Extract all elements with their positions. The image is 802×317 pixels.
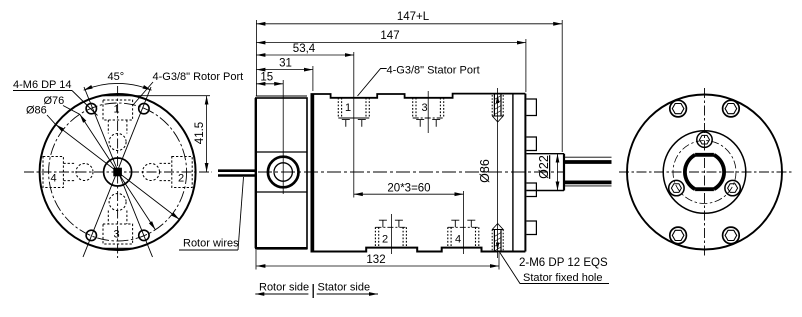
stator port 2 axis bbox=[391, 214, 393, 254]
leader diameter 76 bbox=[63, 106, 155, 230]
center filled square bbox=[113, 168, 122, 177]
separator bar bbox=[312, 284, 314, 298]
port 4 number bbox=[51, 173, 57, 185]
port 1 hole dashed circle bbox=[109, 134, 126, 151]
right view horizontal centerline bbox=[619, 171, 792, 173]
svg-text:3: 3 bbox=[114, 229, 120, 241]
small screw bottom-right bbox=[725, 180, 740, 195]
label 4-M6 DP 14 bbox=[13, 79, 72, 91]
left view top flat chord bbox=[104, 95, 132, 97]
svg-text:Rotor side: Rotor side bbox=[259, 282, 309, 294]
leader stator port bbox=[358, 69, 387, 97]
port 3 number bbox=[114, 229, 120, 241]
port 1 passage dashed lines bbox=[108, 120, 127, 134]
dimension 15 bbox=[256, 72, 283, 84]
M6 screw bottom bbox=[492, 224, 503, 252]
diagonal line B through bolts bbox=[83, 87, 151, 257]
svg-text:15: 15 bbox=[260, 72, 273, 84]
rotor housing band lines bbox=[256, 152, 307, 192]
stator port 4 number bbox=[455, 234, 461, 246]
rotor port boss inner circle bbox=[274, 163, 292, 181]
svg-text:4: 4 bbox=[455, 234, 461, 246]
stator port 1 number bbox=[345, 102, 351, 114]
extension line 147 right bbox=[525, 39, 527, 92]
terminal tab 3 bbox=[526, 183, 536, 197]
svg-text:Ø86: Ø86 bbox=[478, 159, 492, 183]
svg-text:4: 4 bbox=[51, 173, 57, 185]
label 4-G3/8 stator port bbox=[387, 65, 480, 77]
terminal tab 4 bbox=[526, 221, 536, 235]
rotor wires bbox=[218, 171, 256, 176]
bolt hole top-left bbox=[86, 103, 96, 113]
port 2 passage dashed lines bbox=[160, 163, 172, 180]
label stator side bbox=[317, 282, 378, 295]
dimension 132 bbox=[256, 250, 499, 270]
left view outer circle Ø86 bbox=[40, 94, 196, 250]
label rotor side bbox=[255, 282, 309, 295]
stator port 2 threads bbox=[375, 220, 406, 247]
label 4-G3/8 rotor port bbox=[153, 71, 244, 83]
stator port 1 axis bbox=[353, 52, 355, 198]
end cap seam line bbox=[512, 94, 514, 252]
bolt hole top-right bbox=[139, 103, 149, 113]
stator top edge profile bbox=[311, 94, 526, 98]
label stator fixed hole bbox=[523, 272, 603, 284]
svg-text:Ø86: Ø86 bbox=[26, 105, 47, 117]
dimension 41.5 extension line bbox=[132, 95, 210, 97]
M6 screw top bbox=[492, 95, 503, 123]
svg-text:Rotor wires: Rotor wires bbox=[183, 238, 239, 250]
stator port 3 axis bbox=[427, 91, 429, 133]
stator port 3 number bbox=[422, 102, 428, 114]
dimension 53,4 bbox=[256, 43, 353, 55]
svg-text:147: 147 bbox=[380, 30, 399, 42]
svg-text:Ø22: Ø22 bbox=[537, 155, 551, 179]
port 1 number bbox=[114, 104, 120, 116]
right view screw bolt circle bbox=[673, 141, 736, 204]
stator wall (rotor-stator interface) bbox=[311, 94, 315, 252]
svg-text:45°: 45° bbox=[108, 71, 125, 83]
right view outer circle bbox=[627, 95, 782, 250]
diameter 22 dimension bbox=[537, 154, 558, 191]
svg-text:2: 2 bbox=[178, 173, 184, 185]
45 degree label bbox=[108, 71, 125, 83]
port 3 dashed box bbox=[103, 224, 133, 244]
rotor wires leader bbox=[238, 177, 244, 250]
port 4 hole dashed circle bbox=[76, 164, 93, 181]
dimension 41.5 bbox=[194, 96, 207, 172]
bolt hole bottom-left bbox=[86, 230, 96, 240]
port 3 passage dashed lines bbox=[108, 211, 127, 225]
svg-text:20*3=60: 20*3=60 bbox=[387, 183, 430, 195]
port 4 passage dashed lines bbox=[63, 163, 75, 180]
leader 4-M6 to bolt bbox=[72, 91, 98, 116]
svg-text:4-M6 DP 14: 4-M6 DP 14 bbox=[13, 79, 72, 91]
terminal tab 1 bbox=[526, 99, 536, 116]
rotor wires label bbox=[179, 238, 239, 251]
stator port 2 number bbox=[382, 234, 388, 246]
left view vertical centerline bbox=[117, 86, 119, 258]
hex bolt bottom-left bbox=[670, 227, 687, 244]
center hole with flats bbox=[685, 155, 724, 189]
stator wires bbox=[564, 157, 612, 186]
svg-text:2-M6 DP 12 EQS: 2-M6 DP 12 EQS bbox=[519, 257, 608, 269]
leader stator fixed hole bbox=[499, 251, 610, 284]
port 2 hole dashed circle bbox=[143, 164, 160, 181]
45 degree arc bbox=[84, 83, 152, 90]
port 4 dashed box bbox=[43, 157, 63, 188]
extension line left (rotor face) bbox=[255, 20, 257, 96]
small screw top bbox=[697, 132, 712, 147]
rotor housing top seam bbox=[256, 95, 307, 97]
hex bolt top-left bbox=[670, 100, 687, 117]
leader rotor port bbox=[133, 82, 153, 105]
bolt hole bottom-right bbox=[139, 230, 149, 240]
svg-text:132: 132 bbox=[366, 254, 385, 266]
dimension 147+L bbox=[256, 11, 562, 24]
stator shaft outline bbox=[526, 154, 564, 191]
dimension 147 bbox=[256, 30, 526, 43]
stator port 3 threads bbox=[413, 98, 444, 127]
diameter 86 text bbox=[478, 159, 492, 183]
flange right edge bbox=[524, 94, 526, 252]
left view bolt circle Ø76 bbox=[49, 103, 187, 241]
extension line 147+L right bbox=[561, 20, 563, 152]
center shaft circle bbox=[104, 158, 132, 186]
right view vertical centerline bbox=[704, 88, 706, 257]
port 2 number bbox=[178, 173, 184, 185]
port 3 hole dashed circle bbox=[109, 194, 126, 211]
label diameter 76 bbox=[44, 95, 65, 107]
rotor port axis line bbox=[282, 80, 284, 194]
port 2 dashed box bbox=[172, 157, 192, 188]
svg-text:2: 2 bbox=[382, 234, 388, 246]
label diameter 86 bbox=[26, 105, 47, 117]
left view bottom flat chord bbox=[104, 247, 132, 249]
svg-text:4-G3/8" Stator Port: 4-G3/8" Stator Port bbox=[387, 65, 480, 77]
diameter 86 dimension line / screw centerline bbox=[496, 88, 499, 258]
stator port 1 threads bbox=[338, 98, 369, 127]
dimension 31 bbox=[256, 58, 313, 92]
dimension 20*3=60 bbox=[354, 183, 464, 195]
hex bolt bottom-right bbox=[723, 227, 740, 244]
stator bottom edge profile bbox=[311, 248, 526, 252]
rotor housing outline bbox=[255, 98, 307, 248]
leader diameter 86 bbox=[47, 115, 180, 220]
rotor port boss outer circle bbox=[268, 157, 299, 188]
right view flange circle bbox=[663, 131, 746, 214]
svg-text:53,4: 53,4 bbox=[293, 43, 316, 55]
svg-text:147+L: 147+L bbox=[397, 11, 430, 23]
svg-text:Stator side: Stator side bbox=[318, 282, 371, 294]
svg-text:3: 3 bbox=[422, 102, 428, 114]
diagonal line A through bolts bbox=[84, 87, 153, 257]
stator port 4 threads bbox=[448, 220, 479, 247]
stator port 4 axis bbox=[463, 191, 465, 254]
svg-text:4-G3/8" Rotor Port: 4-G3/8" Rotor Port bbox=[153, 71, 244, 83]
left view horizontal centerline bbox=[24, 171, 212, 173]
hex bolt top-right bbox=[723, 100, 740, 117]
label 2-M6 DP 12 EQS bbox=[519, 257, 608, 269]
svg-text:41.5: 41.5 bbox=[194, 122, 206, 144]
svg-text:1: 1 bbox=[345, 102, 351, 114]
svg-text:Stator fixed hole: Stator fixed hole bbox=[523, 272, 603, 284]
small screw bottom-left bbox=[669, 180, 684, 195]
main axis centerline bbox=[258, 171, 565, 173]
svg-text:1: 1 bbox=[114, 104, 120, 116]
svg-text:31: 31 bbox=[279, 58, 292, 70]
port 1 dashed box bbox=[103, 100, 133, 120]
terminal tab 2 bbox=[526, 137, 536, 151]
